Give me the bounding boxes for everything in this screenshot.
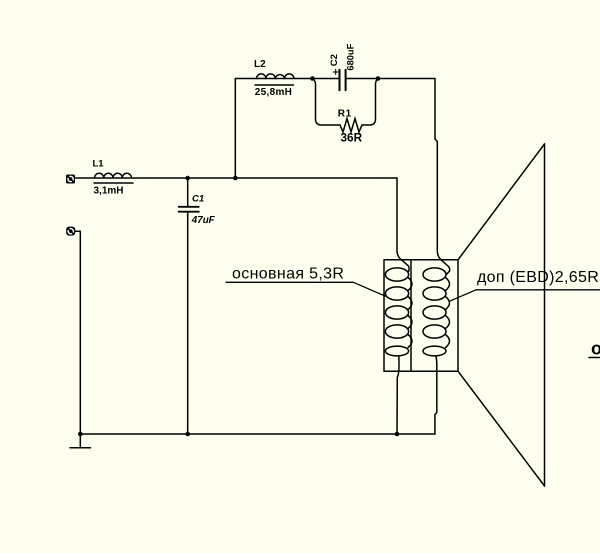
node: C1 bottom junction: [185, 432, 190, 437]
capacitor C2 plates: [339, 70, 341, 90]
voice coil 1 connecting arcs: [408, 278, 412, 348]
capacitor C1 plates: [179, 206, 199, 208]
svg-text:3,1mH: 3,1mH: [94, 186, 124, 197]
label underline: cut-off label bottom right: [589, 357, 600, 359]
terminal J2 (input -): [66, 227, 75, 236]
capacitor C1 bottom lead: [187, 212, 189, 434]
inductor L1: [95, 173, 132, 178]
speaker cone bottom edge: [458, 372, 544, 486]
svg-text:C2: C2: [329, 54, 340, 66]
voice coil 2 (доп) loops: [423, 268, 446, 281]
svg-text:L2: L2: [254, 59, 266, 70]
capacitor C1 top lead: [187, 178, 189, 207]
node: coil1 bottom junction: [395, 432, 400, 437]
wire: C2 right plate to corner: [346, 78, 435, 80]
svg-text:25,8mH: 25,8mH: [255, 87, 292, 98]
wire: L2 branch vertical: [234, 79, 236, 179]
C2 polarity plus sign: [333, 70, 338, 75]
L1 value underline: [94, 182, 133, 184]
node: R1 left junction: [310, 76, 315, 81]
speaker cone top edge: [458, 144, 544, 260]
svg-text:L1: L1: [93, 159, 105, 170]
label leader: доп: [451, 290, 600, 301]
wire: J2 to bottom rail: [75, 231, 80, 434]
node: ground junction: [78, 432, 83, 437]
wire: coil 1 bottom exit: [397, 357, 399, 435]
svg-text:основная 5,3R: основная 5,3R: [232, 266, 344, 283]
terminal J1 (input +): [66, 175, 75, 184]
resistor R1 branch (parallel with C2): [313, 79, 341, 126]
ground: [70, 434, 91, 448]
L2 value underline: [255, 84, 294, 86]
resistor R1 zigzag: [340, 119, 362, 133]
wire: coil 2 bottom exit: [435, 357, 437, 435]
node: C1 top junction: [185, 176, 190, 181]
svg-text:C1: C1: [192, 194, 204, 205]
voice coil 1 (основная) loops: [385, 268, 408, 281]
wire: left feed from main wire into coil 1: [397, 178, 409, 271]
coil divider line: [410, 260, 412, 371]
wire: right feed vertical down to coil 2: [435, 79, 450, 274]
node: L2 branch junction: [233, 176, 238, 181]
node: R1 right junction: [376, 76, 381, 81]
label leader: основная: [226, 282, 387, 297]
wire: main mid rail (J1 to coil 1 feed): [75, 177, 397, 179]
voice coil 2 connecting arcs: [446, 278, 450, 348]
inductor L2: [257, 74, 295, 79]
svg-text:о: о: [591, 339, 600, 359]
svg-text:47uF: 47uF: [191, 215, 216, 226]
coil former rectangle: [384, 260, 458, 371]
wire: bottom rail: [80, 433, 435, 435]
svg-text:36R: 36R: [341, 130, 363, 144]
speaker front edge: [544, 144, 546, 486]
svg-text:R1: R1: [338, 109, 352, 120]
svg-text:доп (EBD)2,65R: доп (EBD)2,65R: [477, 269, 599, 286]
wire: top rail (branch corner to C2 left plate): [235, 78, 339, 80]
svg-text:680uF: 680uF: [346, 43, 356, 70]
